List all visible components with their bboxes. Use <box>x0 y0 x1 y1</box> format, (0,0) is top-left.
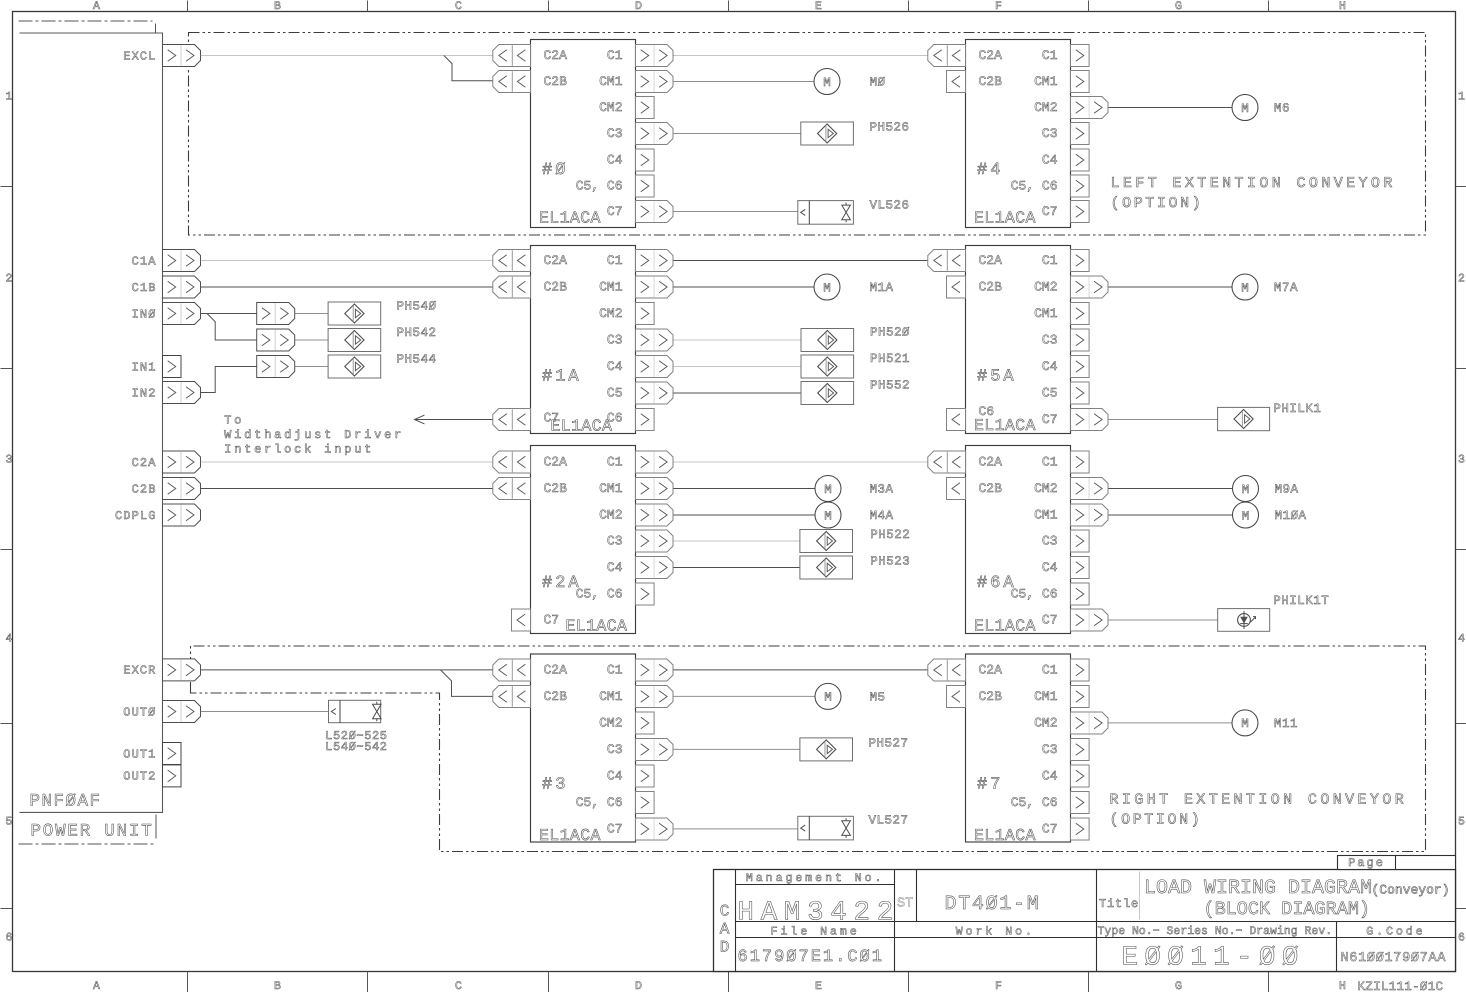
svg-text:PH521: PH521 <box>870 352 910 366</box>
#5A right connector row1 <box>1071 276 1109 298</box>
svg-text:MØ: MØ <box>870 76 886 90</box>
#7 right connector row0 <box>1071 659 1090 681</box>
#6A right connector row6 <box>1071 609 1109 631</box>
wire #5A CM2 to motor M7A <box>1109 286 1233 288</box>
label M10A <box>1275 509 1307 523</box>
title block outer box <box>714 870 1456 972</box>
svg-text:PHILK1: PHILK1 <box>1273 402 1321 416</box>
svg-text:3: 3 <box>1458 454 1465 467</box>
svg-text:CM1: CM1 <box>599 280 623 295</box>
svg-text:PH527: PH527 <box>869 736 909 750</box>
svg-text:EXCL: EXCL <box>123 49 156 63</box>
wire #2A CM2 to motor M4A <box>673 514 817 516</box>
svg-text:C3: C3 <box>1042 126 1058 141</box>
svg-text:#7: #7 <box>977 776 1003 795</box>
svg-text:(OPTION): (OPTION) <box>1110 812 1203 829</box>
wire #4 CM2 to motor M6 <box>1109 107 1233 109</box>
#2A right connector row2 <box>636 504 674 526</box>
svg-text:3: 3 <box>6 454 13 467</box>
svg-text:M11: M11 <box>1274 717 1298 731</box>
svg-text:PH523: PH523 <box>870 555 910 569</box>
title block main title <box>1144 877 1450 920</box>
wire #1A C3 to PH520 <box>673 339 801 341</box>
svg-text:C7: C7 <box>607 822 623 837</box>
power unit terminal C2B <box>132 478 201 500</box>
svg-text:6179Ø7E1.CØ1: 6179Ø7E1.CØ1 <box>738 948 884 967</box>
svg-text:CM2: CM2 <box>1034 481 1057 496</box>
label M9A <box>1275 483 1299 497</box>
title block G code value <box>1341 951 1447 966</box>
photo sensor PH544 <box>328 355 381 378</box>
photo sensor PH526 <box>801 122 854 145</box>
svg-text:EL1ACA: EL1ACA <box>974 617 1036 636</box>
#3 right connector row0 <box>636 659 674 681</box>
svg-text:C2B: C2B <box>544 74 568 89</box>
wire #1A C5 to PH552 <box>673 392 801 394</box>
svg-text:C2B: C2B <box>544 689 568 704</box>
svg-text:C2A: C2A <box>979 253 1003 268</box>
svg-text:C3: C3 <box>607 333 623 348</box>
#0 left connector row0 <box>493 45 531 67</box>
machine boundary dash-dot top left <box>19 21 156 33</box>
valve L520 <box>329 700 382 722</box>
wire #1A C7 interlock arrow <box>415 415 493 424</box>
svg-text:RIGHT EXTENTION CONVEYOR: RIGHT EXTENTION CONVEYOR <box>1110 792 1408 809</box>
#3 right connector row6 <box>636 818 674 840</box>
svg-text:(OPTION): (OPTION) <box>1111 195 1204 212</box>
svg-text:D: D <box>635 980 642 992</box>
svg-text:M3A: M3A <box>870 483 894 497</box>
#6A left connector row0 <box>928 451 966 473</box>
svg-text:PH544: PH544 <box>397 353 437 367</box>
svg-text:M: M <box>1241 717 1249 731</box>
wire EXCL branch to #0 C2B <box>444 56 493 81</box>
svg-text:OUTØ: OUTØ <box>123 705 156 719</box>
#2A right connector row0 <box>636 451 674 473</box>
wire #0 C3 to PH526 <box>673 133 801 135</box>
#7 left connector row0 <box>928 659 966 681</box>
svg-text:M5: M5 <box>870 690 886 704</box>
svg-text:M1ØA: M1ØA <box>1275 509 1307 523</box>
svg-text:C5, C6: C5, C6 <box>576 587 623 602</box>
#1A right connector row2 <box>636 303 655 325</box>
#1A right connector row3 <box>636 329 674 351</box>
#3 left connector row1 <box>493 686 531 708</box>
wire #3 C1 to #7 C2A <box>673 669 928 671</box>
svg-text:5: 5 <box>6 816 13 829</box>
svg-text:M: M <box>1242 509 1250 523</box>
power unit terminal CDPLG <box>115 504 201 526</box>
svg-text:(Conveyor): (Conveyor) <box>1372 883 1450 898</box>
wire #6A CM2 to motor M9A <box>1109 488 1234 490</box>
wire #2A C4 to PH523 <box>673 567 800 569</box>
photo sensor PH520 <box>801 329 854 352</box>
connector pair to PH542 <box>257 329 295 351</box>
#5A right connector row0 <box>1071 250 1090 272</box>
#4 right connector row6 <box>1071 201 1090 223</box>
label PH540 <box>397 300 437 314</box>
svg-text:B: B <box>274 980 281 992</box>
svg-text:PNFØAF: PNFØAF <box>30 792 102 812</box>
#5A left connector row1 <box>947 276 966 298</box>
#6A left connector row1 <box>947 478 966 500</box>
#5A right connector row6 <box>1071 409 1109 431</box>
label PHILK1T <box>1273 594 1329 608</box>
svg-text:PH526: PH526 <box>870 121 910 135</box>
#4 right connector row1 <box>1071 71 1090 93</box>
#2A left connector row1 <box>493 478 531 500</box>
svg-text:C4: C4 <box>1042 153 1058 168</box>
power unit label POWER UNIT box <box>155 815 157 839</box>
svg-text:CM1: CM1 <box>1034 74 1058 89</box>
svg-text:C1: C1 <box>1042 663 1058 678</box>
svg-text:#1A: #1A <box>542 368 582 387</box>
svg-text:LEFT EXTENTION CONVEYOR: LEFT EXTENTION CONVEYOR <box>1111 175 1396 192</box>
label VL527 <box>869 814 909 828</box>
#2A pin labels <box>542 455 627 636</box>
motor M7A <box>1232 274 1258 300</box>
svg-text:#5A: #5A <box>977 368 1017 387</box>
svg-text:G: G <box>1175 0 1182 13</box>
svg-text:C2B: C2B <box>979 280 1003 295</box>
svg-text:6: 6 <box>6 932 13 945</box>
title block HAM3422 <box>738 898 900 929</box>
wire #2A CM1 to motor M3A <box>673 488 817 490</box>
controller block #6A body <box>966 446 1071 634</box>
photo sensor PHILK1 <box>1218 407 1270 430</box>
label PH521 <box>870 352 910 366</box>
#4 left connector row1 <box>947 71 966 93</box>
machine boundary dash-dot bottom left <box>19 843 155 845</box>
wire IN0 branch to PH542 connector <box>207 314 257 341</box>
#4 pin labels <box>974 48 1058 227</box>
svg-text:C7: C7 <box>1042 204 1058 219</box>
#2A right connector row5 <box>636 583 655 605</box>
wire #3 C7 to VL527 <box>673 828 798 830</box>
svg-text:CM2: CM2 <box>599 716 622 731</box>
connector pair to PH544 <box>257 356 295 378</box>
#1A right connector row5 <box>636 382 674 404</box>
#1A left connector row1 <box>493 276 531 298</box>
svg-text:EL1ACA: EL1ACA <box>551 417 613 436</box>
#3 right connector row3 <box>636 739 674 761</box>
title block Work No. header <box>956 926 1035 939</box>
#5A right connector row2 <box>1071 303 1090 325</box>
svg-text:D: D <box>635 0 642 13</box>
svg-text:PH54Ø: PH54Ø <box>397 300 437 314</box>
svg-text:C2B: C2B <box>132 482 157 496</box>
power unit label PNF0AF <box>30 792 102 812</box>
wire EXCR to #3 C2A <box>201 669 493 671</box>
wire #7 CM2 to motor M11 <box>1109 722 1233 724</box>
svg-text:Type No.− Series No.− Drawing: Type No.− Series No.− Drawing Rev. <box>1098 925 1333 938</box>
valve VL527 <box>798 816 854 840</box>
svg-text:IN2: IN2 <box>132 386 157 400</box>
title block Type No header <box>1098 925 1333 938</box>
#6A pin labels <box>974 455 1058 636</box>
motor M1A <box>814 274 840 300</box>
svg-text:C1: C1 <box>1042 455 1058 470</box>
svg-text:M6: M6 <box>1274 102 1290 116</box>
svg-text:#Ø: #Ø <box>542 161 568 180</box>
#6A right connector row3 <box>1071 530 1090 552</box>
svg-text:OUT1: OUT1 <box>123 747 156 761</box>
title block G.Code header <box>1366 926 1425 939</box>
#0 right connector row4 <box>636 149 655 171</box>
photo sensor PH540 <box>328 302 381 325</box>
#3 left connector row0 <box>493 659 531 681</box>
svg-text:ST: ST <box>897 897 913 912</box>
#7 right connector row6 <box>1071 818 1090 840</box>
left extention conveyor option dashed box <box>189 33 1426 236</box>
label M3A <box>870 483 894 497</box>
svg-text:C4: C4 <box>607 769 623 784</box>
svg-text:C3: C3 <box>607 534 623 549</box>
svg-text:(BLOCK DIAGRAM): (BLOCK DIAGRAM) <box>1204 899 1371 920</box>
svg-text:C1A: C1A <box>132 254 157 268</box>
svg-text:EXCR: EXCR <box>123 664 156 678</box>
power unit terminal C2A <box>132 451 201 473</box>
svg-text:4: 4 <box>6 633 13 646</box>
svg-text:M: M <box>824 691 832 705</box>
svg-text:F: F <box>995 980 1002 992</box>
svg-text:M: M <box>823 76 831 90</box>
wire EXCR branch to #3 C2B <box>441 670 493 697</box>
wire OUT0 to valve L520 <box>201 711 329 713</box>
svg-text:N61ØØ179Ø7AA: N61ØØ179Ø7AA <box>1341 951 1447 966</box>
wire #2A C3 to PH522 <box>673 540 800 542</box>
svg-text:C2A: C2A <box>132 456 157 470</box>
#0 right connector row3 <box>636 123 674 145</box>
svg-text:C7: C7 <box>607 204 623 219</box>
#3 right connector row2 <box>636 712 655 734</box>
svg-text:Management No.: Management No. <box>746 872 885 885</box>
motor M10A <box>1233 502 1259 528</box>
wire #1A C1 to #5A C2A <box>673 260 928 262</box>
title block page box <box>1338 856 1456 871</box>
svg-text:CM2: CM2 <box>1034 280 1057 295</box>
#2A right connector row1 <box>636 478 674 500</box>
svg-text:#3: #3 <box>542 776 568 795</box>
label L520~525 L540~542 <box>325 729 387 754</box>
power unit label POWER UNIT <box>31 822 154 842</box>
svg-text:C2A: C2A <box>979 663 1003 678</box>
motor M9A <box>1233 476 1259 502</box>
power unit terminal IN2 <box>132 382 201 404</box>
svg-text:A: A <box>93 980 100 992</box>
#0 right connector row2 <box>636 97 655 119</box>
svg-text:POWER UNIT: POWER UNIT <box>31 822 154 842</box>
svg-text:C4: C4 <box>607 359 623 374</box>
wire #1A CM1 to motor M1A <box>673 286 815 288</box>
svg-text:OUT2: OUT2 <box>123 770 156 784</box>
svg-text:CM1: CM1 <box>599 74 623 89</box>
svg-text:D: D <box>720 939 730 957</box>
svg-text:C5, C6: C5, C6 <box>1011 795 1058 810</box>
#5A left connector row0 <box>928 250 966 272</box>
note To Widthadjust Driver Interlock input <box>224 414 404 457</box>
photo sensor PH542 <box>328 329 381 352</box>
#2A left connector row0 <box>493 451 531 473</box>
svg-text:C5: C5 <box>1042 386 1058 401</box>
svg-text:A: A <box>720 921 730 939</box>
svg-text:C7: C7 <box>1042 613 1058 628</box>
photo sensor PH522 <box>800 530 853 553</box>
#1A right connector row6 <box>636 409 655 431</box>
power unit terminal OUT2 <box>123 765 181 787</box>
svg-text:C2A: C2A <box>544 253 568 268</box>
svg-text:1: 1 <box>6 91 13 104</box>
label M4A <box>870 509 894 523</box>
#6A right connector row5 <box>1071 583 1090 605</box>
#6A right connector row2 <box>1071 504 1109 526</box>
svg-text:CDPLG: CDPLG <box>115 509 157 523</box>
#7 pin labels <box>974 663 1058 845</box>
#1A left connector row0 <box>493 250 531 272</box>
svg-text:C2B: C2B <box>544 481 568 496</box>
svg-text:HAM3422: HAM3422 <box>738 898 900 929</box>
svg-text:4: 4 <box>1458 633 1465 646</box>
svg-text:C4: C4 <box>1042 769 1058 784</box>
controller block #0 body <box>531 40 636 228</box>
wire #0 C1 to #4 C2A <box>673 55 930 57</box>
svg-text:CM2: CM2 <box>599 100 622 115</box>
power unit terminal C1A <box>132 250 201 272</box>
svg-text:M: M <box>824 509 832 523</box>
svg-text:M4A: M4A <box>870 509 894 523</box>
svg-text:M: M <box>823 281 831 295</box>
#7 right connector row1 <box>1071 686 1090 708</box>
#7 right connector row3 <box>1071 739 1090 761</box>
svg-text:C5: C5 <box>607 386 623 401</box>
controller block #5A body <box>966 246 1071 434</box>
svg-text:C3: C3 <box>1042 333 1058 348</box>
svg-text:C3: C3 <box>607 126 623 141</box>
note LEFT EXTENTION CONVEYOR <box>1111 175 1396 212</box>
#3 pin labels <box>539 663 623 845</box>
label VL526 <box>870 199 910 213</box>
#6A right connector row4 <box>1071 557 1090 579</box>
#2A left connector row6 <box>512 609 531 631</box>
svg-text:C2A: C2A <box>544 663 568 678</box>
svg-text:C7: C7 <box>1042 412 1058 427</box>
svg-text:C4: C4 <box>1042 359 1058 374</box>
svg-text:VL527: VL527 <box>869 814 909 828</box>
#1A right connector row0 <box>636 250 674 272</box>
wire IN2 to PH544 connector <box>201 367 257 393</box>
led indicator PHILK1T <box>1218 609 1270 632</box>
power unit terminal EXCR <box>123 659 200 681</box>
#7 right connector row4 <box>1071 765 1090 787</box>
svg-text:H: H <box>1339 0 1346 13</box>
label M1A <box>870 281 894 295</box>
svg-text:KZIL111-Ø1C: KZIL111-Ø1C <box>1358 980 1444 992</box>
#4 right connector row5 <box>1071 175 1090 197</box>
svg-text:M: M <box>1241 281 1249 295</box>
wire PH542 connector to PH542 <box>295 339 328 341</box>
svg-text:EL1ACA: EL1ACA <box>539 209 601 228</box>
svg-text:PH52Ø: PH52Ø <box>870 326 910 340</box>
svg-text:L54Ø~542: L54Ø~542 <box>325 740 387 754</box>
svg-text:G: G <box>1175 980 1182 992</box>
wire C1B to #1A C2B <box>201 286 493 288</box>
svg-text:CM2: CM2 <box>599 306 622 321</box>
#1A left connector row6 <box>493 409 531 431</box>
#5A right connector row3 <box>1071 329 1090 351</box>
power unit terminal OUT1 <box>123 743 181 765</box>
wire #3 C3 to PH527 <box>673 748 800 750</box>
svg-text:PH522: PH522 <box>870 528 910 542</box>
svg-text:EL1ACA: EL1ACA <box>539 826 601 845</box>
svg-text:CM1: CM1 <box>1034 508 1058 523</box>
svg-text:C: C <box>455 0 462 13</box>
controller block #4 body <box>966 40 1071 228</box>
wire #1A C4 to PH521 <box>673 366 801 368</box>
wire C2A to #2A C2A <box>201 461 493 463</box>
motor M6 <box>1232 95 1258 121</box>
svg-text:CM2: CM2 <box>599 508 622 523</box>
wire PH540 connector to PH540 <box>295 313 328 315</box>
#5A right connector row4 <box>1071 356 1090 378</box>
svg-text:6: 6 <box>1458 932 1465 945</box>
svg-text:C2B: C2B <box>544 280 568 295</box>
motor M3A <box>815 476 841 502</box>
svg-text:M1A: M1A <box>870 281 894 295</box>
svg-text:Title: Title <box>1099 897 1139 911</box>
svg-text:C1: C1 <box>607 253 623 268</box>
title block file name value <box>738 948 884 967</box>
svg-text:C1: C1 <box>1042 48 1058 63</box>
#4 right connector row2 <box>1071 97 1109 119</box>
wire EXCL to #0 C2A <box>201 55 493 57</box>
title block ST <box>897 897 913 912</box>
svg-text:E: E <box>815 980 822 992</box>
connector pair to PH540 <box>257 303 295 325</box>
svg-text:M9A: M9A <box>1275 483 1299 497</box>
wire #0 C7 to VL526 <box>673 211 798 213</box>
#2A right connector row4 <box>636 557 674 579</box>
svg-text:C2B: C2B <box>979 74 1003 89</box>
wire #3 CM1 to motor M5 <box>673 695 816 697</box>
#4 right connector row0 <box>1071 45 1090 67</box>
svg-text:C5, C6: C5, C6 <box>1011 587 1058 602</box>
wire C2B to #2A C2B <box>201 488 493 490</box>
svg-text:C5, C6: C5, C6 <box>1011 179 1058 194</box>
#0 right connector row5 <box>636 175 655 197</box>
controller block #1A body <box>531 246 636 434</box>
title block drawing number E0011-00 <box>1122 943 1305 974</box>
svg-text:PH552: PH552 <box>870 379 910 393</box>
#7 right connector row2 <box>1071 712 1109 734</box>
#4 right connector row3 <box>1071 123 1090 145</box>
svg-text:C5, C6: C5, C6 <box>576 179 623 194</box>
svg-text:G.Code: G.Code <box>1366 926 1425 939</box>
#1A right connector row4 <box>636 356 674 378</box>
label PHILK1 <box>1273 402 1321 416</box>
svg-text:C3: C3 <box>607 742 623 757</box>
svg-text:C4: C4 <box>607 153 623 168</box>
svg-text:C4: C4 <box>607 560 623 575</box>
svg-text:A: A <box>93 0 100 13</box>
motor M4A <box>815 502 841 528</box>
label M5 <box>870 690 886 704</box>
#1A pin labels <box>542 253 623 435</box>
svg-text:5: 5 <box>1458 816 1465 829</box>
photo sensor PH552 <box>801 382 854 405</box>
svg-text:LOAD WIRING DIAGRAM: LOAD WIRING DIAGRAM <box>1144 877 1372 900</box>
svg-text:CM1: CM1 <box>599 689 623 704</box>
motor M0 <box>814 69 840 95</box>
